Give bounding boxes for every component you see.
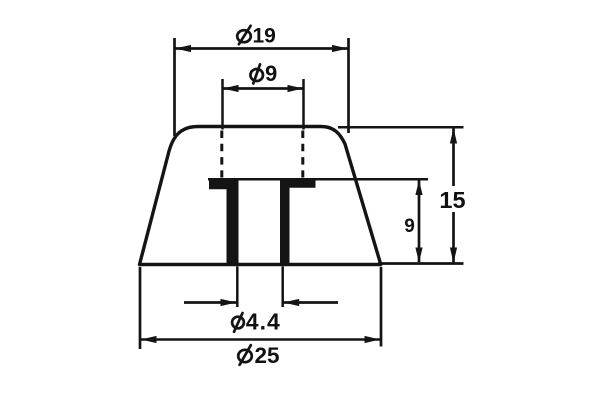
dimension line 15 (broken by label): [452, 129, 455, 187]
label phi19 (phi symbol drawn): [237, 30, 251, 42]
label phi9 (phi symbol drawn): [250, 69, 263, 81]
extension line phi9 right: [302, 79, 305, 130]
svg-text:25: 25: [255, 343, 280, 368]
extension line phi25 right: [380, 267, 383, 347]
svg-text:9: 9: [265, 61, 277, 86]
extension line phi25 left: [139, 267, 142, 349]
extension line phi4.4 left: [236, 267, 239, 308]
svg-text:19: 19: [253, 24, 276, 47]
svg-text:9: 9: [404, 216, 415, 237]
body bottom line: [139, 263, 382, 267]
label phi4.4 (phi symbol drawn): [232, 317, 244, 329]
extension line phi19 right: [347, 38, 350, 133]
dimension line phi25: [141, 338, 380, 341]
insert flange + tube wall left (solid section): [209, 181, 239, 264]
body outline (truncated-cone cross-section): [140, 127, 381, 265]
extension line phi9 left: [221, 79, 224, 130]
extension line phi4.4 right: [281, 267, 284, 308]
dimension line phi4.4 left segment with arrow: [184, 301, 237, 304]
dimension line 9: [418, 181, 421, 263]
flange top line + extension line for dim 9: [208, 178, 428, 181]
extension line phi19 left: [173, 38, 176, 136]
extension line top right (for dim 15): [338, 126, 464, 129]
label phi25 (phi symbol drawn): [238, 350, 252, 362]
hidden edge dashed line left (phi9 recess): [220, 131, 223, 178]
dimension line phi4.4 right segment with arrow: [283, 301, 338, 304]
insert flange + tube wall right (solid section): [280, 180, 316, 263]
dimension line phi19: [175, 47, 348, 50]
extension line bottom right (for dim 15): [378, 262, 464, 265]
dimension line phi9: [223, 87, 303, 90]
svg-text:15: 15: [439, 187, 465, 213]
hidden edge dashed line right (phi9 recess): [301, 131, 304, 178]
svg-text:4.4: 4.4: [246, 309, 281, 335]
